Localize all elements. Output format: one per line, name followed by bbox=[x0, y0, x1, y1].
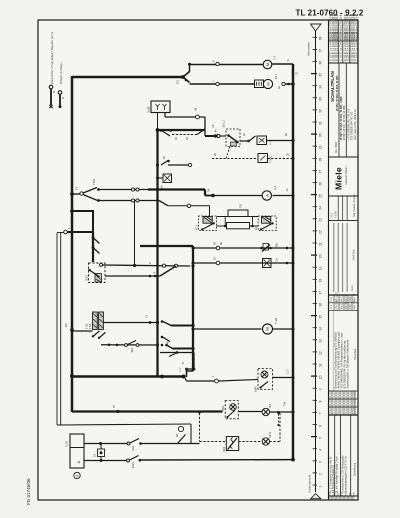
thermal cutout F1b bbox=[263, 244, 269, 251]
svg-text:FU: FU bbox=[176, 80, 180, 84]
svg-text:210760: 210760 bbox=[346, 491, 348, 499]
svg-text:3U/1.2: 3U/1.2 bbox=[223, 120, 226, 128]
relay coil 4b bbox=[156, 177, 159, 180]
wire top supply rail L bbox=[72, 76, 183, 78]
svg-text:7.2: 7.2 bbox=[273, 55, 277, 60]
svg-text:W 987, W 197, W 196, W 988: W 987, W 197, W 196, W 988 bbox=[342, 105, 346, 140]
heater relay R7.1 left bbox=[195, 216, 217, 231]
wire lamp module to rail bbox=[273, 377, 294, 379]
svg-text:11: 11 bbox=[318, 363, 322, 367]
wire right main rail bbox=[292, 64, 294, 460]
Miele logo bbox=[329, 165, 359, 196]
svg-text:Stromlaufplan n. DIN Wasch-Vo: Stromlaufplan n. DIN Wasch-Vollautomat bbox=[346, 340, 350, 389]
svg-text:Vorderansicht: Vorderansicht bbox=[308, 474, 312, 493]
svg-text:8: 8 bbox=[318, 400, 322, 402]
svg-text:TN/1: TN/1 bbox=[92, 178, 96, 185]
svg-text:Bemerkung: Bemerkung bbox=[352, 462, 356, 476]
wire center rail B bbox=[192, 246, 194, 371]
contact 42 bbox=[160, 129, 163, 132]
revision table bbox=[329, 15, 359, 63]
contact 1b bbox=[247, 140, 250, 143]
filter left pin thin bbox=[157, 113, 159, 131]
ruler bottom triangle marker bbox=[311, 494, 321, 499]
indicator lamp H bbox=[262, 408, 269, 415]
svg-text:210760: 210760 bbox=[354, 491, 356, 499]
svg-text:Stromlauf: Stromlauf bbox=[353, 349, 357, 360]
svg-text:R7.1: R7.1 bbox=[195, 224, 199, 230]
svg-text:MIL. 9603: MIL. 9603 bbox=[335, 141, 338, 153]
svg-text:4.11.96 Wz 0760 21 fr: 4.11.96 Wz 0760 21 fr bbox=[338, 15, 342, 40]
linkage dashed y134 bbox=[172, 134, 197, 136]
motor M1 bbox=[263, 79, 272, 88]
junction step y211 bbox=[70, 209, 74, 213]
svg-text:12: 12 bbox=[318, 351, 322, 355]
svg-text:21-0760: 21-0760 bbox=[342, 397, 344, 406]
temp limiter box right bbox=[254, 216, 276, 231]
title cell SCHALTPLAN with model list bbox=[329, 63, 359, 157]
contact T1 on x93 bbox=[92, 236, 95, 239]
svg-text:33: 33 bbox=[318, 97, 322, 101]
svg-text:21-0760: 21-0760 bbox=[353, 405, 355, 414]
svg-text:21-0760: 21-0760 bbox=[350, 389, 352, 398]
heater wiring left bbox=[217, 216, 229, 218]
svg-text:14: 14 bbox=[318, 327, 322, 331]
svg-text:A: A bbox=[76, 460, 81, 463]
svg-text:H3/14: H3/14 bbox=[269, 431, 272, 438]
notes table bbox=[329, 415, 359, 496]
svg-text:R.b: R.b bbox=[275, 242, 279, 247]
svg-text:9A: 9A bbox=[175, 434, 179, 437]
dashed wire thermostat row bbox=[212, 158, 258, 160]
terminal circle 1 line A bbox=[215, 379, 219, 383]
svg-text:17.2: 17.2 bbox=[331, 297, 333, 302]
wire line A thick bbox=[72, 375, 185, 377]
contact from rail to heater stub bbox=[159, 201, 168, 206]
svg-text:W 961, W 963, W 965, W 985: W 961, W 963, W 965, W 985 bbox=[335, 75, 339, 111]
svg-text:210760: 210760 bbox=[334, 491, 336, 499]
wire motor to right rail bbox=[273, 328, 294, 330]
svg-text:21-0760: 21-0760 bbox=[338, 405, 340, 414]
switch S box bbox=[223, 437, 239, 453]
door contact 9A bbox=[175, 426, 186, 443]
wire outer loop bottom bbox=[57, 424, 191, 425]
parts legend long entries bbox=[333, 310, 357, 391]
wire phase to pump motor bbox=[190, 64, 264, 66]
switch BU/1 row2 bbox=[127, 459, 130, 462]
svg-text:FD 31745/06: FD 31745/06 bbox=[26, 478, 31, 505]
section ruler line bbox=[315, 31, 317, 492]
wire thick to step y189 bbox=[148, 188, 205, 190]
svg-text:B: B bbox=[181, 362, 185, 364]
svg-text:34: 34 bbox=[207, 188, 211, 192]
plug connector 21 bbox=[98, 449, 105, 457]
contact 43 bbox=[197, 130, 204, 135]
svg-text:9: 9 bbox=[318, 388, 322, 390]
earth symbol circled U bbox=[74, 472, 80, 478]
wire upper lock line bbox=[99, 189, 158, 191]
lamp module M/5 dashed box bbox=[255, 369, 273, 393]
svg-text:M.1: M.1 bbox=[274, 74, 278, 79]
wire pressure out 27 bbox=[103, 322, 157, 324]
drawing border frame bbox=[38, 20, 358, 500]
svg-text:1.17: 1.17 bbox=[287, 369, 290, 374]
svg-text:38: 38 bbox=[318, 37, 322, 41]
svg-text:21-0760: 21-0760 bbox=[353, 389, 355, 398]
svg-text:7.1/2: 7.1/2 bbox=[274, 317, 278, 324]
thermostat T90C bbox=[258, 154, 268, 163]
svg-text:Spannungsangaben 230 V 50 Hz: Spannungsangaben 230 V 50 Hz bbox=[345, 455, 348, 493]
wire line A thin bbox=[185, 378, 187, 381]
title block bottom row bbox=[330, 491, 356, 500]
svg-text:9/4-741: 9/4-741 bbox=[346, 293, 348, 302]
svg-text:19.3: 19.3 bbox=[331, 213, 334, 218]
svg-text:3B/8: 3B/8 bbox=[222, 405, 225, 411]
wire to pressure switch bbox=[72, 330, 93, 332]
date and name table bbox=[329, 194, 359, 221]
ruler top triangle marker bbox=[311, 24, 322, 31]
svg-text:Tag | Name | Datum: Tag | Name | Datum bbox=[352, 194, 356, 217]
svg-text:TW: TW bbox=[283, 401, 287, 406]
svg-text:M: M bbox=[265, 327, 270, 331]
svg-text:21-0760: 21-0760 bbox=[342, 389, 344, 398]
svg-text:St. als Unterlage Nr. gültig f: St. als Unterlage Nr. gültig f. Ausf. bbox=[336, 455, 339, 493]
svg-text:36: 36 bbox=[318, 61, 322, 65]
door lock switch TN/1 bbox=[72, 193, 80, 195]
svg-text:21-0760: 21-0760 bbox=[346, 397, 348, 406]
svg-text:21-0760: 21-0760 bbox=[346, 405, 348, 414]
svg-text:21-0760: 21-0760 bbox=[334, 405, 336, 414]
svg-text:A 2: A 2 bbox=[273, 185, 277, 190]
wire switch out lower bbox=[105, 275, 160, 277]
svg-text:5: 5 bbox=[318, 437, 322, 439]
svg-text:Gütersloh (Westf.): Gütersloh (Westf.) bbox=[345, 165, 348, 185]
wire A2 to right rail bbox=[273, 195, 294, 197]
svg-text:27: 27 bbox=[318, 170, 322, 174]
wire line B mid bbox=[238, 411, 262, 413]
wire bottom row 2 start bbox=[84, 460, 127, 462]
svg-text:34: 34 bbox=[318, 85, 322, 89]
svg-text:3J/2: 3J/2 bbox=[131, 446, 135, 451]
svg-text:T 90C: T 90C bbox=[269, 155, 273, 163]
wire rail B foot jog bbox=[187, 371, 194, 377]
wire cross link y246 bbox=[140, 245, 193, 247]
junction top rail split bbox=[181, 75, 185, 79]
svg-text:SCHALTPLAN: SCHALTPLAN bbox=[330, 71, 335, 102]
wire line B thick bbox=[72, 410, 223, 412]
terminal after motor M1 bbox=[282, 82, 285, 85]
heater wiring right bbox=[248, 216, 258, 218]
svg-text:7: 7 bbox=[318, 412, 322, 414]
junction row y263 bbox=[192, 262, 195, 265]
rung y322 to rail B bbox=[163, 322, 171, 326]
svg-text:M: M bbox=[266, 63, 270, 66]
interference filter 3U/8 bbox=[151, 101, 170, 113]
wire to drain motor bbox=[190, 83, 255, 85]
svg-text:21-0760: 21-0760 bbox=[350, 405, 352, 414]
svg-text:28: 28 bbox=[318, 158, 322, 162]
wire row1 to loop corner bbox=[141, 443, 200, 445]
svg-text:Brücke / E (Reg.): Brücke / E (Reg.) bbox=[59, 62, 63, 84]
svg-text:21-0760: 21-0760 bbox=[346, 389, 348, 398]
svg-text:210760: 210760 bbox=[330, 491, 332, 499]
svg-text:32: 32 bbox=[318, 109, 322, 113]
wire row y248 bbox=[193, 247, 293, 249]
svg-text:10: 10 bbox=[318, 375, 322, 379]
svg-text:32: 32 bbox=[295, 71, 299, 75]
contact 4b mid bbox=[161, 336, 164, 339]
svg-text:3: 3 bbox=[318, 461, 322, 463]
svg-text:4.11.96 Wz 0760 21 fr: 4.11.96 Wz 0760 21 fr bbox=[354, 15, 358, 40]
junction left rail TN1 bbox=[70, 192, 74, 196]
svg-text:29: 29 bbox=[318, 145, 322, 149]
svg-text:1 B2: 1 B2 bbox=[85, 323, 88, 329]
junction left rail line A bbox=[70, 374, 74, 378]
junction 34 bbox=[205, 195, 213, 197]
svg-text:gepr. W: gepr. W bbox=[353, 293, 356, 302]
dashed group frame bbox=[199, 413, 201, 442]
svg-text:Wz 21: Wz 21 bbox=[341, 302, 343, 309]
svg-text:30: 30 bbox=[318, 133, 322, 137]
svg-text:Prüf-Stät.: Prüf-Stät. bbox=[352, 249, 356, 260]
wire Y7 to right rail bbox=[267, 140, 294, 142]
heater element R lower bbox=[227, 223, 250, 229]
svg-text:21-0760: 21-0760 bbox=[350, 397, 352, 406]
svg-text:21-0760: 21-0760 bbox=[338, 397, 340, 406]
junction rail A y130 bbox=[156, 128, 160, 132]
svg-text:27: 27 bbox=[145, 315, 149, 318]
svg-text:21: 21 bbox=[318, 242, 322, 246]
svg-text:57: 57 bbox=[112, 405, 116, 408]
svg-text:W/1: W/1 bbox=[130, 347, 134, 352]
svg-text:Norm: Norm bbox=[351, 285, 354, 291]
wire row y263 bbox=[193, 262, 293, 264]
svg-text:0760: 0760 bbox=[350, 304, 352, 310]
svg-text:210760: 210760 bbox=[350, 491, 352, 499]
svg-text:1: 1 bbox=[318, 485, 322, 487]
contact T2 on x93 bbox=[92, 246, 95, 249]
svg-text:21-0760: 21-0760 bbox=[338, 389, 340, 398]
svg-text:20: 20 bbox=[318, 254, 322, 258]
parts legend bottom rows bbox=[329, 389, 359, 415]
suppressor box B6 bbox=[255, 80, 264, 88]
legend symbol bridge bbox=[58, 62, 64, 108]
svg-text:21-0760: 21-0760 bbox=[330, 397, 332, 406]
motor A2 bbox=[262, 191, 271, 200]
program switch 3U/1 bbox=[85, 263, 105, 283]
svg-text:21: 21 bbox=[93, 454, 97, 457]
svg-text:1U/1: 1U/1 bbox=[65, 440, 69, 447]
svg-text:21-0760: 21-0760 bbox=[330, 405, 332, 414]
rung y345 to rail B bbox=[161, 344, 164, 347]
wire pump to right rail bbox=[272, 63, 294, 65]
parts legend table header rows bbox=[329, 291, 359, 310]
svg-text:40.9: 40.9 bbox=[269, 403, 272, 408]
svg-text:mit Angabe bei Bestellung: mit Angabe bei Bestellung bbox=[332, 465, 335, 493]
svg-text:25: 25 bbox=[318, 194, 322, 198]
svg-text:3U/1: 3U/1 bbox=[85, 275, 89, 281]
svg-text:21-0760: 21-0760 bbox=[334, 397, 336, 406]
svg-text:Ausf. gepr. techn. Werke str.: Ausf. gepr. techn. Werke str. bbox=[354, 108, 357, 140]
svg-text:1 B2: 1 B2 bbox=[89, 323, 92, 329]
svg-text:4.9.96: 4.9.96 bbox=[335, 211, 338, 218]
wire to valve Y7 bbox=[240, 140, 248, 142]
valve coil Y7 bbox=[257, 136, 267, 145]
svg-text:575-2963: 575-2963 bbox=[336, 291, 338, 301]
svg-text:4: 4 bbox=[318, 449, 322, 451]
program unit 1U/1 box bbox=[70, 434, 84, 468]
svg-text:Wz 21: Wz 21 bbox=[341, 295, 343, 302]
wire outer loop corner bbox=[57, 232, 61, 234]
wire to program switch 3U1 bbox=[92, 232, 94, 262]
svg-text:24: 24 bbox=[318, 206, 322, 210]
wire line B to rail bbox=[270, 411, 294, 413]
svg-text:18: 18 bbox=[318, 279, 322, 283]
wire bottom row 1 bbox=[84, 443, 128, 445]
svg-text:31: 31 bbox=[318, 121, 322, 125]
wire contact row y130 bbox=[158, 129, 206, 131]
heater stub terminal bbox=[209, 206, 211, 216]
svg-text:23: 23 bbox=[318, 218, 322, 222]
svg-text:6: 6 bbox=[318, 425, 322, 427]
svg-text:210760: 210760 bbox=[342, 491, 344, 499]
terminal circle A6 bbox=[196, 115, 200, 119]
svg-text:17: 17 bbox=[318, 291, 322, 295]
junction bottom right corner bbox=[291, 458, 295, 462]
legend symbol accessory circuit bbox=[49, 32, 55, 108]
svg-text:0760: 0760 bbox=[350, 296, 352, 302]
wire loop right drop bbox=[190, 424, 192, 444]
svg-text:16: 16 bbox=[318, 303, 322, 307]
svg-text:210760: 210760 bbox=[338, 491, 340, 499]
svg-text:Miele: Miele bbox=[334, 167, 344, 190]
wire step bbox=[67, 211, 93, 232]
svg-text:W 907, W 918, W 961, W 987, C: W 907, W 918, W 961, W 987, C888 bbox=[339, 96, 343, 140]
wire step down x205 bbox=[204, 190, 206, 196]
wire outer loop left double bbox=[56, 233, 58, 425]
svg-text:3B/Z: 3B/Z bbox=[223, 446, 226, 452]
svg-text:21-0760: 21-0760 bbox=[330, 389, 332, 398]
svg-text:R2: R2 bbox=[239, 203, 243, 207]
svg-text:21-0760: 21-0760 bbox=[342, 405, 344, 414]
svg-text:M: M bbox=[266, 82, 271, 85]
aux contact row y165 bbox=[161, 161, 168, 166]
wire lower lock line bbox=[99, 200, 158, 202]
switch 3J/2 row1 bbox=[127, 442, 130, 445]
lamp module 3B/8 dashed box bbox=[222, 401, 239, 419]
svg-text:7.b: 7.b bbox=[275, 258, 279, 262]
svg-text:F1: F1 bbox=[75, 186, 79, 190]
svg-text:21-0760: 21-0760 bbox=[334, 389, 336, 398]
title block outer frame bbox=[328, 20, 330, 500]
svg-text:Zubehörtle i. Progr.ablauf / R: Zubehörtle i. Progr.ablauf / Reg.abl. (v… bbox=[50, 32, 54, 84]
pressure switch 1U/2 coils bbox=[85, 312, 105, 339]
linkage dashed to thermostat bbox=[226, 147, 230, 159]
dashed wire to right rail bbox=[268, 158, 294, 160]
level switch W/1 bbox=[125, 344, 128, 347]
selector switch 3U1.2 bbox=[205, 120, 240, 147]
svg-text:15: 15 bbox=[318, 315, 322, 319]
svg-text:17.2: 17.2 bbox=[331, 304, 333, 309]
svg-text:21-0760: 21-0760 bbox=[353, 397, 355, 406]
svg-text:1.17: 1.17 bbox=[180, 367, 182, 372]
wire drop x134 from lock row bbox=[134, 201, 136, 266]
motor drive row bbox=[192, 328, 195, 331]
aux contact cluster bbox=[160, 347, 195, 377]
wire filter right pin bbox=[164, 113, 166, 118]
wire center rail A bbox=[156, 130, 158, 377]
wire bottom rail N bbox=[140, 459, 294, 461]
svg-text:26: 26 bbox=[318, 182, 322, 186]
drive motor M7.1 bbox=[263, 324, 273, 334]
signal lamp H1/14 bbox=[262, 438, 269, 445]
svg-text:Innenseite: Innenseite bbox=[307, 42, 311, 56]
junction rail A y165 bbox=[156, 163, 159, 166]
heater element R upper bbox=[228, 210, 248, 217]
svg-text:3U/8: 3U/8 bbox=[147, 106, 151, 113]
svg-text:PA: PA bbox=[64, 323, 68, 327]
svg-text:1M/5: 1M/5 bbox=[255, 386, 258, 392]
motor M7.2 pump bbox=[263, 60, 272, 69]
junction PA bbox=[70, 328, 74, 332]
wire pressure out lower bbox=[101, 344, 158, 346]
junction row y248 bbox=[192, 247, 195, 250]
svg-text:35: 35 bbox=[318, 73, 322, 77]
svg-text:13: 13 bbox=[318, 339, 322, 343]
wire to motor A2 bbox=[213, 195, 262, 197]
wire drop to contact row bbox=[204, 117, 206, 136]
svg-text:37: 37 bbox=[318, 49, 322, 53]
svg-text:A: A bbox=[265, 194, 270, 197]
signature grid cell bbox=[329, 223, 359, 295]
svg-text:19: 19 bbox=[318, 266, 322, 270]
dashed stub below junction bbox=[278, 414, 280, 424]
terminal circle 1 bbox=[64, 230, 68, 234]
ruler ticks and numbers 1-38 bbox=[311, 37, 322, 488]
wire switch out upper bbox=[100, 263, 103, 266]
wire left main rail bbox=[71, 76, 73, 412]
svg-text:22: 22 bbox=[318, 230, 322, 234]
svg-text:BU/1: BU/1 bbox=[131, 462, 135, 468]
svg-text:2: 2 bbox=[318, 473, 322, 475]
heater lamp box bbox=[263, 259, 272, 268]
